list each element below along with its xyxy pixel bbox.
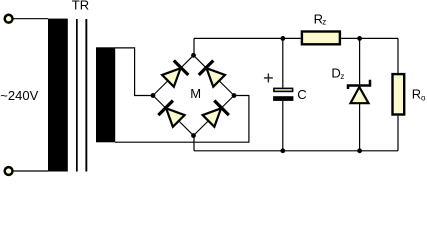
svg-text:z: z xyxy=(340,72,344,81)
svg-text:D: D xyxy=(331,66,340,81)
svg-text:~240V: ~240V xyxy=(0,88,38,103)
svg-text:z: z xyxy=(322,17,326,26)
svg-text:TR: TR xyxy=(72,0,89,13)
svg-text:o: o xyxy=(421,93,426,102)
svg-text:C: C xyxy=(297,87,306,102)
svg-text:R: R xyxy=(412,87,421,102)
svg-text:M: M xyxy=(190,86,201,101)
